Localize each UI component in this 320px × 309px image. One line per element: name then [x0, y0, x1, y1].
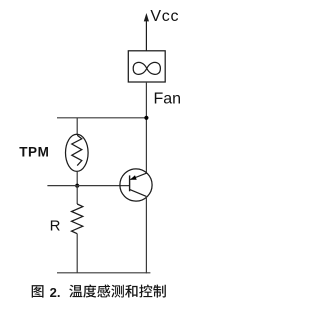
transistor Q1 emitter arrow (PNP) [130, 175, 137, 180]
wire bottom rail [57, 272, 150, 274]
power Vcc arrow [144, 13, 149, 21]
wire TPM bottom lead [76, 171, 78, 186]
wire base horizontal [47, 185, 129, 187]
fan M1 box [128, 51, 165, 82]
wire resistor bottom lead [76, 234, 78, 273]
wire resistor top lead [76, 186, 78, 204]
fan M1 motor symbol (infinity) [133, 62, 160, 74]
transistor Q1 base bar [129, 175, 131, 191]
svg-text:R: R [50, 218, 61, 235]
thermistor TPM [66, 134, 89, 171]
svg-text:Fan: Fan [154, 91, 182, 108]
wire collector down [145, 196, 147, 273]
wire Vcc lead [145, 20, 147, 52]
junction node divider [75, 184, 79, 188]
wire top horizontal [57, 117, 146, 119]
wire TPM top stub [76, 118, 78, 135]
svg-text:Vcc: Vcc [150, 8, 179, 25]
transistor Q1 emitter [130, 173, 146, 179]
svg-text:TPM: TPM [19, 145, 49, 160]
svg-text:2.: 2. [50, 285, 61, 300]
wire fan to emitter [145, 82, 147, 174]
resistor R [72, 204, 83, 234]
transistor Q1 collector [130, 189, 147, 196]
caption figure title [32, 284, 166, 299]
transistor Q1 body [120, 169, 152, 201]
junction node at Vcc rail [144, 116, 148, 120]
